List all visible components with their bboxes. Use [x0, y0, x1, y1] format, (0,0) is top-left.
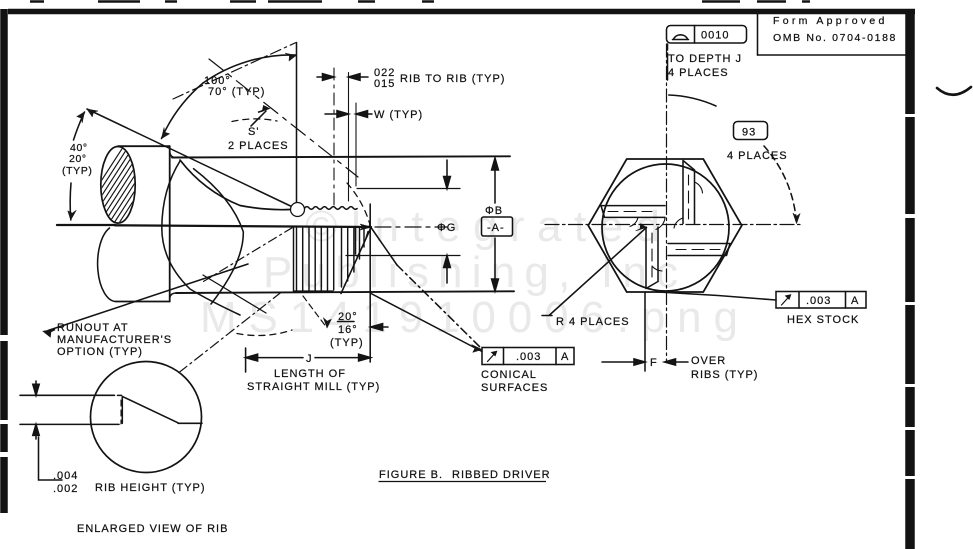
- rib slot right (horizontal): [668, 244, 730, 256]
- svg-text:S': S': [248, 126, 259, 138]
- short construction segment crossing A-prime: [203, 275, 266, 313]
- svg-text:HEX STOCK: HEX STOCK: [787, 314, 859, 326]
- svg-text:W (TYP): W (TYP): [374, 109, 423, 121]
- leader conical upper (from tip): [371, 228, 397, 266]
- F dimension left extension line: [644, 293, 646, 372]
- svg-text:Form Approved: Form Approved: [773, 15, 885, 27]
- tip flank line lower-left: [341, 228, 371, 294]
- svg-text:.004: .004: [53, 470, 78, 482]
- svg-text:MANUFACTURER'S: MANUFACTURER'S: [57, 334, 172, 346]
- lower cap ellipse arc: [98, 228, 116, 302]
- svg-text:MS141910006.png: MS141910006.png: [200, 293, 738, 342]
- svg-text:RIB TO RIB (TYP): RIB TO RIB (TYP): [400, 73, 505, 85]
- angle line D2 dashdot: [209, 59, 358, 177]
- svg-text:RIBBED DRIVER: RIBBED DRIVER: [452, 469, 551, 481]
- leader arrowheads at box: [472, 345, 483, 353]
- svg-text:2 PLACES: 2 PLACES: [228, 140, 289, 152]
- hexagon of hex view: [588, 159, 742, 292]
- caption underline: [379, 481, 547, 483]
- svg-text:STRAIGHT MILL (TYP): STRAIGHT MILL (TYP): [247, 381, 380, 393]
- rib edge ext line 1: [348, 73, 350, 202]
- svg-text:20°: 20°: [338, 311, 358, 323]
- svg-text:SURFACES: SURFACES: [481, 382, 548, 394]
- svg-text:20°: 20°: [69, 153, 87, 165]
- 93 degrees dimension arc: [669, 95, 716, 106]
- enlarged rib surface upper line: [20, 394, 122, 396]
- svg-text:.003: .003: [806, 295, 831, 307]
- svg-text:(TYP): (TYP): [330, 337, 364, 349]
- W dimension arrows: [325, 111, 372, 118]
- upper neck concave curve: [180, 160, 290, 210]
- hex view vertical centerline: [666, 44, 668, 362]
- circle over ribs in hex view: [602, 164, 729, 291]
- tip end face vertical: [369, 204, 371, 362]
- hex view horizontal centerline: [545, 224, 800, 226]
- runout symbol conical: [488, 352, 497, 362]
- rib slot left (horizontal): [601, 206, 665, 218]
- svg-text:93: 93: [742, 127, 756, 139]
- phi B dim line with arrows: [492, 158, 499, 291]
- slot fillet arcs: [630, 182, 703, 271]
- 93 box: [734, 122, 768, 140]
- step to hex line top: [170, 152, 175, 158]
- svg-text:.002: .002: [53, 483, 78, 495]
- leader vertical below 0010 frame: [667, 44, 669, 80]
- svg-text:0010: 0010: [701, 30, 729, 42]
- big curve beta (right C): [194, 169, 244, 304]
- svg-text:LENGTH OF: LENGTH OF: [274, 368, 346, 380]
- svg-text:J: J: [306, 353, 313, 365]
- fcf conical surfaces box: [482, 348, 574, 365]
- 20/16 arrow left-pointing at tip line: [371, 324, 388, 331]
- phi G bottom ext line B': [346, 255, 460, 257]
- step bottom to hex line: [170, 293, 176, 298]
- enlarged view circle: [91, 362, 202, 473]
- rib height lower arrow: [33, 424, 39, 439]
- svg-text:OVER: OVER: [691, 355, 726, 367]
- rib edge ext line 2: [355, 103, 357, 186]
- svg-text:-A-: -A-: [487, 222, 505, 234]
- hex stock bottom line A': [176, 291, 514, 293]
- svg-text:4 PLACES: 4 PLACES: [727, 150, 788, 162]
- J dimension line and arrows: [246, 354, 371, 361]
- vertex circle: [291, 203, 305, 217]
- border top noise dashes: [30, 0, 810, 2]
- fcf hex stock box: [776, 292, 866, 309]
- part centerline dashdot right of tip: [375, 226, 447, 228]
- rib pitch ext line dashdot: [333, 68, 335, 205]
- 93 arc end arrow: [793, 213, 800, 224]
- leader R 4 PLACES: [542, 228, 647, 316]
- runout leader: [44, 264, 248, 336]
- svg-text:FIGURE B.: FIGURE B.: [379, 469, 443, 481]
- runout symbol hex stock: [782, 295, 791, 305]
- svg-text:OPTION (TYP): OPTION (TYP): [57, 346, 143, 358]
- angle line D2a dashdot rising: [173, 43, 296, 100]
- svg-text:CONICAL: CONICAL: [481, 369, 537, 381]
- border top bar: [8, 9, 915, 15]
- svg-text:70° (TYP): 70° (TYP): [208, 86, 265, 98]
- 40/20 dimension arc: [74, 112, 85, 140]
- rib slot bottom (vertical): [646, 227, 658, 289]
- tooth hidden dash: [120, 400, 122, 424]
- part centerline left stub: [57, 224, 115, 226]
- J dim left ext line: [245, 348, 247, 372]
- svg-text:ΦG: ΦG: [437, 222, 456, 234]
- rib slot lines lower half: [294, 228, 365, 291]
- rib slot bottom edge: [294, 290, 334, 292]
- slot hidden dashes top: [688, 175, 690, 219]
- svg-text:.003: .003: [516, 351, 541, 363]
- dashed circle arcs (cone dia): [347, 183, 370, 257]
- enlarged rib surface lower line: [20, 423, 119, 425]
- svg-text:A: A: [851, 295, 859, 307]
- slot hidden dashes right: [676, 249, 720, 251]
- 100/70 extension vertical: [296, 43, 298, 203]
- tolerance bracket: [39, 437, 63, 480]
- slot hidden dashes bottom: [651, 233, 653, 277]
- arc end arrows: [162, 53, 297, 138]
- block bottom edge: [116, 301, 170, 303]
- svg-text:TO DEPTH J: TO DEPTH J: [668, 53, 742, 65]
- profile of surface symbol: [673, 35, 689, 40]
- straight mill end edge: [355, 227, 357, 255]
- svg-text:R 4 PLACES: R 4 PLACES: [556, 316, 630, 328]
- border left bar: [0, 9, 8, 513]
- leader conical lower: [371, 294, 482, 352]
- svg-text:A: A: [561, 351, 569, 363]
- block right edge: [169, 146, 171, 301]
- rib slot top (vertical): [683, 161, 695, 224]
- svg-text:RIB HEIGHT (TYP): RIB HEIGHT (TYP): [95, 482, 206, 494]
- 20 fraction bar: [338, 321, 355, 323]
- F dimension arrows: [602, 359, 645, 365]
- svg-text:4 PLACES: 4 PLACES: [668, 67, 729, 79]
- border right bar: [905, 9, 915, 549]
- form approved box bottom line: [758, 54, 907, 56]
- 20/16 short dashed leader: [303, 296, 327, 328]
- leader enlarged view to slot: [179, 292, 281, 372]
- svg-text:(TYP): (TYP): [62, 165, 92, 177]
- slot hidden dashes left: [608, 211, 652, 213]
- svg-text:OMB No. 0704-0188: OMB No. 0704-0188: [773, 32, 896, 44]
- svg-text:015: 015: [374, 78, 395, 90]
- big curve alpha (left C): [162, 161, 240, 315]
- wavy rib crest line: [305, 207, 357, 210]
- angle line D1 20deg: [87, 109, 291, 206]
- hatched ellipse outline: [101, 147, 135, 224]
- fcf hex stock leader: [656, 292, 776, 300]
- feature control frame 0010: [667, 26, 747, 44]
- hex stock top line A: [172, 156, 510, 157]
- centerline end arrow: [360, 224, 372, 230]
- datum A box: [482, 217, 513, 236]
- phi G top ext line B: [357, 188, 460, 190]
- 100/70 dimension arc: [203, 55, 296, 83]
- 022/015 dimension arrows: [317, 74, 368, 81]
- S' leader arrow: [251, 106, 269, 126]
- svg-text:ENLARGED VIEW OF RIB: ENLARGED VIEW OF RIB: [77, 523, 228, 535]
- svg-text:F: F: [650, 357, 658, 369]
- enlarged rib tooth and slope: [122, 396, 202, 423]
- svg-text:16°: 16°: [338, 324, 358, 336]
- leader to vertex from lower left: [204, 228, 292, 282]
- block top edge: [118, 145, 170, 147]
- phi G dim arrows outside: [444, 160, 451, 283]
- rib height upper arrow: [33, 381, 39, 395]
- scan mark curve top right: [937, 87, 971, 95]
- 40/20 arc arrows: [68, 112, 85, 220]
- svg-text:RUNOUT AT: RUNOUT AT: [57, 322, 129, 334]
- form approved box left line: [757, 14, 759, 55]
- svg-text:ΦB: ΦB: [485, 205, 503, 217]
- svg-text:RIBS (TYP): RIBS (TYP): [691, 369, 758, 381]
- D1 end arrowhead: [87, 109, 98, 117]
- part centerline through part: [115, 225, 371, 227]
